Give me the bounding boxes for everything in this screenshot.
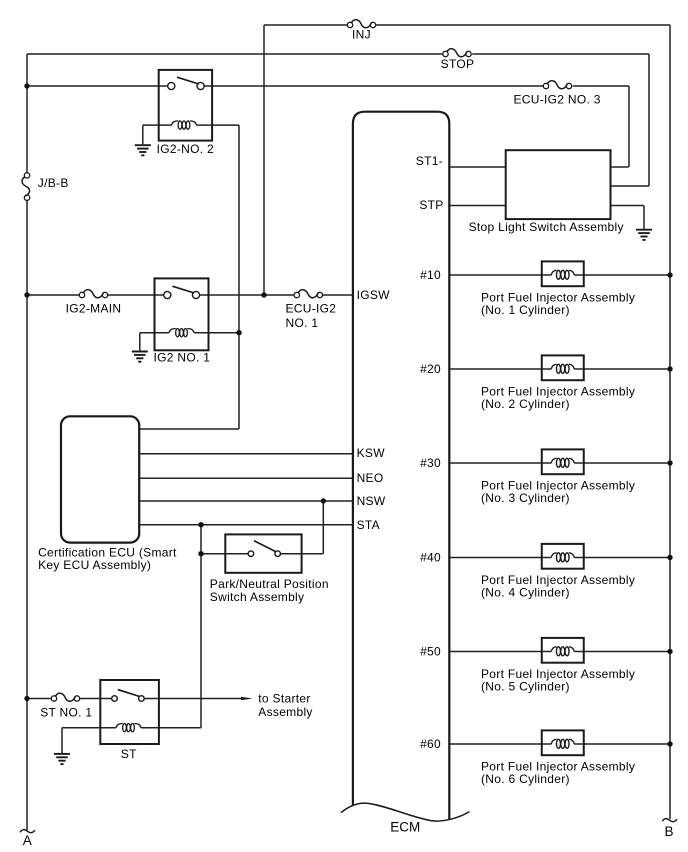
svg-text:(No. 1 Cylinder): (No. 1 Cylinder) [481,303,570,317]
svg-text:to Starter: to Starter [258,691,310,705]
svg-text:#30: #30 [420,456,441,470]
svg-text:ST1-: ST1- [416,154,443,168]
svg-text:#40: #40 [420,550,441,564]
svg-text:(No. 6 Cylinder): (No. 6 Cylinder) [481,772,570,786]
svg-text:(No. 3 Cylinder): (No. 3 Cylinder) [481,491,570,505]
svg-text:STP: STP [419,198,443,212]
svg-text:Assembly: Assembly [258,705,312,719]
svg-text:STOP: STOP [441,57,475,71]
svg-text:ECU-IG2: ECU-IG2 [286,302,337,316]
svg-text:J/B-B: J/B-B [38,176,69,190]
svg-text:Switch Assembly: Switch Assembly [210,590,305,604]
svg-text:ECM: ECM [390,819,420,834]
svg-text:A: A [23,833,32,848]
svg-text:IG2-NO. 2: IG2-NO. 2 [157,142,214,156]
svg-text:INJ: INJ [352,28,371,42]
svg-text:NSW: NSW [357,494,386,508]
svg-text:IG2-MAIN: IG2-MAIN [66,301,122,315]
svg-text:(No. 4 Cylinder): (No. 4 Cylinder) [481,585,570,599]
svg-text:STA: STA [357,518,380,532]
svg-text:NO. 1: NO. 1 [286,316,319,330]
svg-text:#10: #10 [420,268,441,282]
svg-text:KSW: KSW [357,446,386,460]
svg-text:IGSW: IGSW [357,288,391,302]
svg-text:Stop Light Switch Assembly: Stop Light Switch Assembly [469,220,624,234]
svg-text:(No. 5 Cylinder): (No. 5 Cylinder) [481,679,570,693]
svg-text:NEO: NEO [357,471,384,485]
svg-text:ST: ST [121,747,137,761]
svg-text:B: B [664,824,673,839]
svg-text:#20: #20 [420,362,441,376]
svg-text:IG2 NO. 1: IG2 NO. 1 [154,351,211,365]
svg-text:(No. 2 Cylinder): (No. 2 Cylinder) [481,397,570,411]
svg-text:ECU-IG2 NO. 3: ECU-IG2 NO. 3 [514,92,601,106]
svg-text:Key ECU Assembly): Key ECU Assembly) [38,558,151,572]
svg-text:ST NO. 1: ST NO. 1 [40,705,92,719]
svg-text:#60: #60 [420,737,441,751]
svg-text:#50: #50 [420,644,441,658]
